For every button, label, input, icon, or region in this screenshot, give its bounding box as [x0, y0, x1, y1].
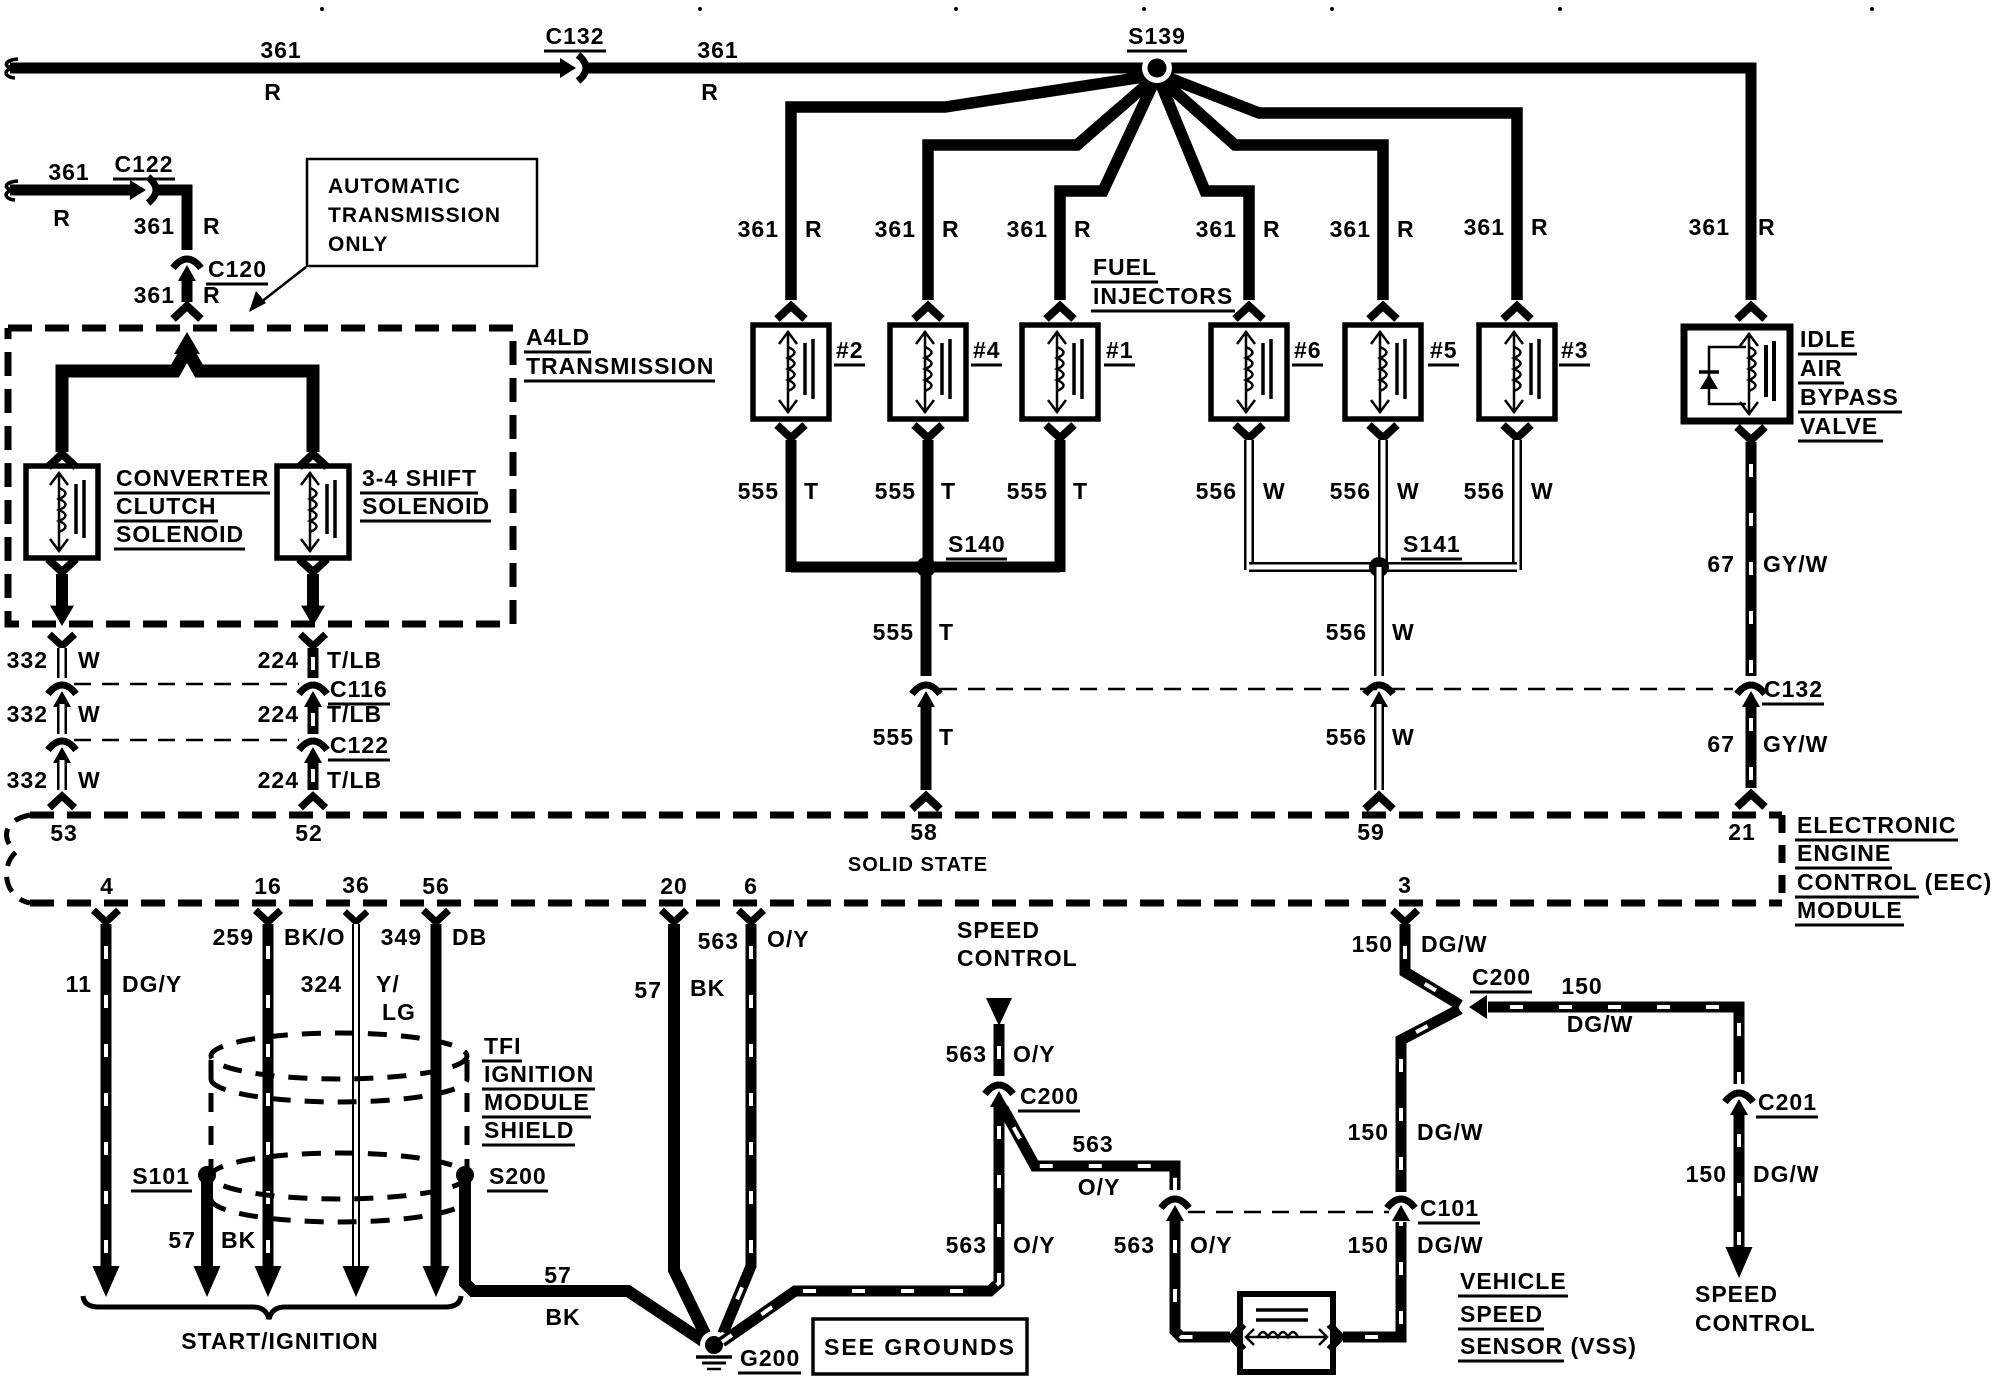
svg-text:4: 4	[100, 873, 114, 899]
svg-text:ELECTRONIC: ELECTRONIC	[1797, 812, 1957, 838]
svg-text:CONTROL (EEC): CONTROL (EEC)	[1797, 869, 1992, 895]
EEC module dashed box right edge	[1779, 815, 1786, 903]
svg-text:SHIELD: SHIELD	[484, 1117, 574, 1143]
fork below A4LD edge (332)	[49, 634, 74, 646]
svg-text:563: 563	[946, 1041, 987, 1067]
wire 57 BK from EEC pin 20	[674, 924, 707, 1338]
splice dot S141	[1369, 557, 1389, 577]
connector C200	[985, 1085, 1013, 1094]
connector C200 (right) male arrow	[1469, 995, 1487, 1019]
arrow terminal pin4 wire	[93, 1266, 120, 1297]
wire S139 branch to injector #2	[791, 76, 1150, 300]
svg-text:555: 555	[1007, 478, 1048, 504]
svg-text:S101: S101	[132, 1163, 190, 1189]
svg-text:R: R	[203, 213, 221, 239]
splice dot S140	[916, 557, 936, 577]
fork at EEC pin 56	[423, 910, 448, 922]
wire 555 T from S140 to connector C132	[921, 567, 932, 676]
wire 556 W from injector #6	[1244, 440, 1254, 570]
svg-text:361: 361	[134, 282, 175, 308]
svg-text:W: W	[78, 647, 101, 673]
wire 150 DG/W from VSS to C101	[1343, 1222, 1401, 1337]
fuel injector #2	[753, 325, 829, 419]
svg-text:361: 361	[260, 37, 301, 63]
male arrow at solenoid tent apex	[174, 332, 200, 354]
fork below converter clutch solenoid	[48, 559, 76, 572]
svg-text:T/LB: T/LB	[327, 767, 382, 793]
svg-text:S140: S140	[948, 531, 1006, 557]
svg-text:W: W	[1392, 619, 1415, 645]
wire 563 O/Y from speed control to C200	[994, 1024, 1005, 1076]
wire 332 W segment 1	[57, 648, 67, 678]
wire 11 DG/Y	[101, 924, 112, 1266]
svg-text:R: R	[53, 205, 71, 231]
svg-text:53: 53	[50, 820, 78, 846]
svg-text:#2: #2	[836, 337, 864, 363]
wire 57 BK from S200 to G200	[465, 1180, 706, 1343]
connector chevrons on 555 at C132 line	[912, 685, 940, 694]
svg-text:CLUTCH: CLUTCH	[116, 493, 217, 519]
svg-text:W: W	[1263, 478, 1286, 504]
svg-text:361: 361	[1330, 216, 1371, 242]
fork above converter clutch solenoid	[48, 454, 76, 467]
svg-text:224: 224	[258, 701, 299, 727]
wire 150 DG/W from C101 up to C200 junction	[1401, 1009, 1460, 1192]
svg-text:20: 20	[660, 873, 688, 899]
wire 556 bus to splice S141	[1249, 562, 1517, 572]
3-4 shift solenoid	[277, 466, 349, 558]
svg-text:W: W	[78, 701, 101, 727]
svg-text:CONTROL: CONTROL	[1695, 1310, 1816, 1336]
wire 563 O/Y from C200 down to G200	[722, 1104, 999, 1342]
svg-text:S139: S139	[1128, 23, 1186, 49]
svg-text:C122: C122	[115, 151, 174, 177]
connector chevrons 332 at C122	[48, 741, 76, 750]
svg-text:IGNITION: IGNITION	[484, 1061, 594, 1087]
svg-text:349: 349	[381, 924, 422, 950]
svg-text:563: 563	[946, 1232, 987, 1258]
svg-text:555: 555	[875, 478, 916, 504]
EEC module dashed box bottom edge	[30, 900, 1782, 907]
svg-text:TRANSMISSION: TRANSMISSION	[526, 353, 714, 379]
connector C132 (top wire)	[560, 58, 576, 78]
wire S139 branch to injector #3	[1164, 76, 1517, 300]
connector C120	[173, 259, 201, 268]
fork at EEC pin 59	[1365, 796, 1393, 809]
svg-text:T: T	[939, 724, 954, 750]
svg-text:150: 150	[1352, 931, 1393, 957]
fuel injector #4	[890, 325, 966, 419]
svg-text:#4: #4	[973, 337, 1001, 363]
svg-text:58: 58	[910, 819, 938, 845]
fuel injector #1	[1022, 325, 1098, 419]
fork at A4LD entry	[173, 306, 201, 319]
fork at EEC pin 52	[300, 796, 325, 808]
wire tent feeding both solenoids	[62, 350, 313, 452]
fork at EEC pin 21	[1737, 794, 1765, 807]
wire 556 W from injector #5	[1378, 440, 1388, 570]
svg-text:R: R	[942, 216, 960, 242]
svg-text:361: 361	[697, 37, 738, 63]
svg-text:MODULE: MODULE	[484, 1089, 590, 1115]
svg-text:C200: C200	[1020, 1083, 1079, 1109]
svg-text:361: 361	[48, 159, 89, 185]
svg-text:C101: C101	[1420, 1195, 1479, 1221]
fork at VSS right terminal	[1329, 1324, 1341, 1349]
svg-text:T/LB: T/LB	[327, 647, 382, 673]
VSS coil winding	[1247, 1336, 1326, 1339]
connector C116 dashed line	[74, 683, 299, 686]
wire 555 T from injector #4	[923, 440, 934, 572]
AUTOMATIC TRANSMISSION ONLY note box	[307, 159, 537, 266]
svg-text:DG/Y: DG/Y	[122, 971, 182, 997]
fuel injector #5	[1345, 325, 1421, 419]
ground G200	[700, 1331, 728, 1359]
svg-text:67: 67	[1707, 551, 1735, 577]
svg-text:150: 150	[1686, 1161, 1727, 1187]
IAB suppression diode loop	[1709, 347, 1746, 404]
svg-text:361: 361	[1689, 214, 1730, 240]
svg-text:T: T	[941, 478, 956, 504]
svg-text:SPEED: SPEED	[957, 917, 1040, 943]
wire 224 T/LB segment 3	[308, 760, 319, 790]
svg-text:GY/W: GY/W	[1763, 551, 1828, 577]
svg-text:SEE GROUNDS: SEE GROUNDS	[824, 1334, 1016, 1360]
svg-text:SPEED: SPEED	[1460, 1301, 1543, 1327]
svg-text:O/Y: O/Y	[1190, 1232, 1233, 1258]
svg-text:57: 57	[634, 977, 662, 1003]
EEC module left edge squiggle	[7, 815, 30, 903]
svg-text:MODULE: MODULE	[1797, 897, 1903, 923]
svg-text:11: 11	[66, 971, 92, 997]
wire converter clutch solenoid to A4LD edge	[56, 574, 68, 606]
svg-text:R: R	[1397, 216, 1415, 242]
svg-text:Y/: Y/	[376, 971, 400, 997]
wire 259 BK/O	[263, 924, 274, 1266]
svg-text:CONTROL: CONTROL	[957, 945, 1078, 971]
svg-text:FUEL: FUEL	[1093, 254, 1157, 280]
arrow terminal to speed control (bottom right)	[1726, 1247, 1753, 1278]
wire 67 GY/W from IAB valve	[1746, 442, 1757, 676]
idle air bypass valve	[1684, 327, 1790, 421]
svg-text:W: W	[1531, 478, 1554, 504]
connector C132 dashed line	[940, 688, 1733, 691]
svg-text:332: 332	[7, 767, 48, 793]
svg-text:DG/W: DG/W	[1417, 1232, 1484, 1258]
arrow from speed control	[986, 998, 1012, 1026]
svg-text:O/Y: O/Y	[767, 926, 810, 952]
fork at EEC pin 16	[255, 910, 280, 922]
svg-text:SPEED: SPEED	[1695, 1281, 1778, 1307]
svg-text:LG: LG	[382, 999, 416, 1025]
svg-text:T/LB: T/LB	[327, 701, 382, 727]
svg-text:555: 555	[873, 724, 914, 750]
svg-text:VEHICLE: VEHICLE	[1460, 1268, 1567, 1294]
svg-text:224: 224	[258, 647, 299, 673]
wire 361 R main feed (top)	[10, 63, 566, 74]
fork below A4LD edge (224)	[300, 634, 325, 646]
svg-text:3-4 SHIFT: 3-4 SHIFT	[362, 465, 477, 491]
svg-text:START/IGNITION: START/IGNITION	[181, 1328, 379, 1354]
arrow terminal 349 wire	[423, 1266, 450, 1297]
fork at EEC pin 20	[661, 910, 686, 922]
connector C132 chevrons on 67 wire	[1737, 685, 1765, 694]
wire 332 W segment 2	[57, 704, 67, 734]
wire 224 T/LB segment 2	[308, 704, 319, 734]
svg-text:R: R	[203, 282, 221, 308]
wire 67 GY/W to EEC pin 21	[1746, 704, 1757, 788]
fork above 3-4 shift solenoid	[299, 454, 327, 467]
svg-text:332: 332	[7, 647, 48, 673]
fuel injector #6	[1211, 325, 1287, 419]
svg-text:6: 6	[744, 873, 758, 899]
connector C101 dashed line	[1188, 1211, 1389, 1214]
svg-text:224: 224	[258, 767, 299, 793]
svg-text:556: 556	[1326, 724, 1367, 750]
svg-text:563: 563	[1072, 1131, 1113, 1157]
wire 57 BK from S101	[201, 1180, 213, 1266]
splice S200 on shield	[456, 1166, 474, 1184]
connector chevrons 563 at C101 line	[1161, 1199, 1189, 1208]
splice S101 on shield	[198, 1166, 216, 1184]
svg-text:BYPASS: BYPASS	[1800, 384, 1899, 410]
svg-text:361: 361	[738, 216, 779, 242]
fork above idle air bypass valve	[1737, 306, 1765, 319]
svg-text:67: 67	[1707, 731, 1735, 757]
svg-text:DG/W: DG/W	[1567, 1011, 1634, 1037]
svg-text:#5: #5	[1430, 337, 1458, 363]
arrow terminal 259 wire	[255, 1266, 282, 1297]
svg-text:TFI: TFI	[484, 1033, 522, 1059]
svg-text:INJECTORS: INJECTORS	[1093, 283, 1233, 309]
arrow terminal 324 wire	[343, 1266, 370, 1297]
brace START/IGNITION	[83, 1296, 461, 1319]
svg-text:O/Y: O/Y	[1013, 1232, 1056, 1258]
fuel injector #3	[1479, 325, 1555, 419]
svg-text:R: R	[701, 79, 719, 105]
svg-text:DG/W: DG/W	[1417, 1119, 1484, 1145]
svg-text:R: R	[1074, 216, 1092, 242]
svg-text:#6: #6	[1294, 337, 1322, 363]
wire 224 T/LB segment 1	[308, 648, 319, 678]
svg-text:C200: C200	[1472, 964, 1531, 990]
svg-text:BK: BK	[690, 975, 725, 1001]
svg-text:259: 259	[213, 924, 254, 950]
svg-text:52: 52	[295, 820, 323, 846]
wire S139 branch to injector #1	[1060, 82, 1154, 300]
svg-text:C132: C132	[1764, 676, 1823, 702]
wire 361 R second feed (left)	[10, 185, 136, 196]
IAB core bars	[1764, 345, 1768, 397]
wire 150 DG/W from C201 to speed control	[1734, 1112, 1745, 1248]
svg-text:O/Y: O/Y	[1078, 1174, 1121, 1200]
svg-text:#1: #1	[1106, 337, 1134, 363]
svg-text:DB: DB	[452, 924, 487, 950]
svg-text:361: 361	[134, 213, 175, 239]
svg-text:16: 16	[254, 873, 282, 899]
fork at EEC pin 4	[93, 910, 118, 922]
wire S139 branch to injector #4	[928, 80, 1152, 300]
svg-text:555: 555	[873, 619, 914, 645]
svg-text:BK/O: BK/O	[284, 924, 346, 950]
svg-text:R: R	[1531, 214, 1549, 240]
svg-text:W: W	[1397, 478, 1420, 504]
svg-text:#3: #3	[1561, 337, 1589, 363]
wire 361 R to connector C120	[154, 190, 187, 250]
svg-text:C122: C122	[330, 732, 389, 758]
svg-text:563: 563	[1114, 1232, 1155, 1258]
svg-text:W: W	[78, 767, 101, 793]
wire 563 O/Y to VSS	[1175, 1218, 1230, 1337]
svg-text:C201: C201	[1758, 1089, 1817, 1115]
connector C201	[1725, 1093, 1753, 1102]
svg-text:SENSOR (VSS): SENSOR (VSS)	[1460, 1333, 1637, 1359]
connector C122 (lower)	[299, 741, 327, 750]
fork terminals below injectors 2/4/1	[777, 425, 805, 438]
svg-text:S141: S141	[1403, 531, 1461, 557]
svg-text:SOLENOID: SOLENOID	[116, 521, 244, 547]
svg-text:C116: C116	[330, 676, 388, 702]
wire 361 R into A4LD transmission	[182, 278, 193, 302]
wire 150 DG/W from EEC pin 3	[1405, 924, 1460, 1005]
svg-text:556: 556	[1196, 478, 1237, 504]
fork terminals above injectors	[777, 306, 805, 319]
svg-text:A4LD: A4LD	[526, 324, 590, 350]
wire 563 O/Y from EEC pin 6	[721, 924, 751, 1338]
wire 555 T from injector #2	[786, 440, 797, 572]
svg-text:R: R	[1758, 214, 1776, 240]
TFI ignition module shield cylinder	[211, 1033, 467, 1222]
svg-text:VALVE: VALVE	[1800, 413, 1878, 439]
svg-text:361: 361	[875, 216, 916, 242]
A4LD transmission dashed box	[8, 328, 513, 624]
svg-text:57: 57	[168, 1227, 196, 1253]
svg-text:556: 556	[1326, 619, 1367, 645]
svg-text:C132: C132	[546, 23, 605, 49]
svg-text:556: 556	[1330, 478, 1371, 504]
svg-text:361: 361	[1196, 216, 1237, 242]
wire 332 W segment 3	[57, 760, 67, 790]
svg-text:56: 56	[422, 873, 450, 899]
connector C116	[299, 685, 327, 694]
svg-text:S200: S200	[489, 1163, 547, 1189]
note arrow to A4LD box	[256, 267, 306, 306]
svg-text:CONVERTER: CONVERTER	[116, 465, 269, 491]
svg-text:555: 555	[738, 478, 779, 504]
connector C122 (left feed)	[130, 180, 146, 200]
svg-text:G200: G200	[740, 1345, 800, 1371]
left-edge continuation hook	[6, 59, 18, 78]
wire 555 bus to splice S140	[791, 562, 1060, 573]
fork at VSS left terminal	[1232, 1324, 1244, 1349]
svg-text:W: W	[1392, 724, 1415, 750]
svg-text:ENGINE: ENGINE	[1797, 840, 1891, 866]
svg-text:T: T	[939, 619, 954, 645]
converter clutch solenoid	[26, 466, 98, 558]
svg-text:3: 3	[1398, 872, 1412, 898]
svg-text:563: 563	[698, 928, 739, 954]
svg-text:361: 361	[1007, 216, 1048, 242]
fork at EEC pin 53	[49, 796, 74, 808]
svg-text:T: T	[804, 478, 819, 504]
wire S139 branch to injector #6	[1160, 82, 1249, 300]
wire 556 W to EEC pin 59	[1374, 704, 1384, 790]
svg-text:T: T	[1073, 478, 1088, 504]
svg-text:59: 59	[1357, 819, 1385, 845]
svg-text:21: 21	[1728, 819, 1756, 845]
wire 555 T to EEC pin 58	[921, 704, 932, 790]
fork at EEC pin 6	[738, 910, 763, 922]
wire 556 W from injector #3	[1512, 440, 1522, 570]
svg-text:150: 150	[1348, 1119, 1389, 1145]
svg-text:AUTOMATIC: AUTOMATIC	[328, 175, 461, 198]
wire 349 DB	[431, 924, 442, 1266]
wire 324 Y/LG	[352, 924, 360, 1266]
wire 556 W from S141 to connector C132	[1374, 567, 1384, 676]
svg-text:324: 324	[301, 971, 342, 997]
svg-text:R: R	[805, 216, 823, 242]
SEE GROUNDS note box	[813, 1319, 1027, 1374]
svg-text:BK: BK	[221, 1227, 256, 1253]
svg-text:R: R	[264, 79, 282, 105]
wire 563 O/Y branch C200 to C101	[1003, 1108, 1175, 1190]
wire S139 branch to injector #5	[1162, 80, 1383, 300]
splice S139	[1171, 68, 1751, 300]
fork below idle air bypass valve	[1737, 427, 1765, 440]
fork terminals below injectors 6/5/3	[1235, 425, 1263, 438]
wire 3-4 shift solenoid to A4LD edge	[307, 574, 319, 606]
svg-text:150: 150	[1348, 1232, 1389, 1258]
fork at EEC pin 36	[345, 912, 367, 922]
svg-text:ONLY: ONLY	[328, 233, 388, 256]
svg-text:R: R	[1263, 216, 1281, 242]
wire 555 T from injector #1	[1055, 440, 1066, 572]
svg-text:IDLE: IDLE	[1800, 326, 1856, 352]
fork at EEC pin 3	[1392, 910, 1417, 922]
left-edge continuation hook 2	[6, 181, 18, 200]
svg-text:DG/W: DG/W	[1421, 931, 1488, 957]
connector chevrons on 556 at C132 line	[1365, 685, 1393, 694]
svg-text:36: 36	[342, 872, 370, 898]
svg-text:SOLENOID: SOLENOID	[362, 493, 490, 519]
connector C122 dashed line	[74, 739, 299, 742]
svg-text:TRANSMISSION: TRANSMISSION	[328, 204, 501, 227]
svg-text:O/Y: O/Y	[1013, 1041, 1056, 1067]
splice dot S139	[1142, 53, 1172, 83]
connector C101	[1387, 1199, 1415, 1208]
svg-text:332: 332	[7, 701, 48, 727]
connector chevrons 332 at C116	[48, 685, 76, 694]
svg-text:DG/W: DG/W	[1753, 1161, 1820, 1187]
svg-text:GY/W: GY/W	[1763, 731, 1828, 757]
svg-text:C120: C120	[208, 256, 267, 282]
svg-text:57: 57	[544, 1262, 572, 1288]
svg-text:150: 150	[1561, 973, 1602, 999]
arrow terminal 57 BK S101	[194, 1266, 221, 1297]
svg-text:361: 361	[1464, 214, 1505, 240]
svg-text:SOLID STATE: SOLID STATE	[848, 854, 988, 876]
svg-text:556: 556	[1464, 478, 1505, 504]
fork below 3-4 shift solenoid	[299, 559, 327, 572]
wire 150 DG/W from C200 to C201	[1488, 1007, 1739, 1084]
svg-text:BK: BK	[545, 1304, 580, 1330]
svg-text:AIR: AIR	[1800, 355, 1843, 381]
vehicle speed sensor VSS	[1240, 1294, 1333, 1372]
EEC module dashed box top edge	[30, 812, 1782, 819]
fork at EEC pin 58	[912, 796, 940, 809]
